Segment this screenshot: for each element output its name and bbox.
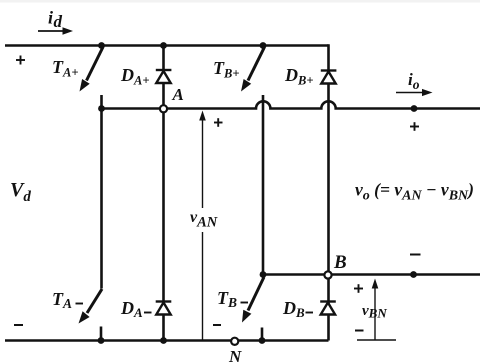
label - (v_AN bottom) <box>213 324 221 326</box>
label + (v_BN top) <box>354 284 363 293</box>
junction dot top rail / T_B+ <box>260 42 267 49</box>
current arrow i_o <box>396 89 433 96</box>
junction dot bottom rail / T_B- <box>259 337 266 344</box>
wire: top positive rail <box>5 44 329 47</box>
junction dot B line / T_B leg <box>260 271 267 278</box>
voltage arrow v_AN (points up to node A line) <box>199 111 206 341</box>
svg-text:B: B <box>333 252 347 273</box>
svg-text:DA+: DA+ <box>120 65 149 88</box>
transistor T_B- (controllable switch) <box>242 277 264 323</box>
svg-text:TA: TA <box>52 289 72 311</box>
wire: D_B leg vertical (top rail corner down to bottom rail) <box>327 44 330 340</box>
junction dot bottom rail / D_A- <box>160 337 167 344</box>
wire: T_A- lower stub <box>100 327 103 341</box>
label + (v_o positive) <box>410 122 419 131</box>
wire: T_B- lower stub <box>261 328 264 341</box>
junction dot B line output terminal <box>410 271 417 278</box>
transistor T_A+ (controllable switch) <box>80 47 104 92</box>
label + (v_AN top) <box>214 118 223 127</box>
svg-text:vo (= vAN − vBN): vo (= vAN − vBN) <box>355 180 474 204</box>
junction dot A line / left leg <box>98 105 105 112</box>
junction dot top rail / T_A+ <box>98 42 105 49</box>
label - (V_d negative) <box>14 324 23 326</box>
svg-text:Vd: Vd <box>10 179 31 205</box>
transistor T_B+ (controllable switch) <box>241 47 265 92</box>
svg-text:DA: DA <box>120 298 143 320</box>
diode D_A+ <box>156 70 172 83</box>
voltage arrow v_BN (points up to node B line) <box>357 279 396 341</box>
diode D_B+ <box>321 71 337 84</box>
svg-text:DB: DB <box>282 298 305 320</box>
transistor T_A- (controllable switch) <box>79 289 103 324</box>
current arrow i_d <box>38 27 73 35</box>
svg-text:A: A <box>172 85 184 104</box>
label - (v_o negative) <box>410 254 421 256</box>
label + (V_d positive) <box>16 56 25 65</box>
svg-text:vBN: vBN <box>362 303 387 321</box>
junction dot A line output terminal <box>411 105 418 112</box>
svg-text:DB+: DB+ <box>284 65 313 88</box>
node A terminal circle <box>160 105 167 112</box>
wire: bottom negative rail <box>5 339 329 342</box>
wire: left leg vertical (between T_A+ and T_A-) <box>100 95 103 289</box>
wire: node-B output line <box>262 273 480 276</box>
label - (v_BN bottom) <box>355 330 364 332</box>
wire: T_B leg vertical (below T_B+ to node B) <box>262 95 265 275</box>
junction dot bottom rail / T_A- <box>98 337 105 344</box>
wire: node-A output line with hops over phase-B leg <box>102 101 480 108</box>
diode D_A- <box>156 302 172 315</box>
node N terminal circle <box>231 338 238 345</box>
junction dot top rail / D_A+ <box>160 42 167 49</box>
svg-text:io: io <box>408 70 420 92</box>
svg-text:N: N <box>228 347 242 364</box>
svg-text:TB+: TB+ <box>213 58 239 81</box>
svg-text:vAN: vAN <box>190 209 218 231</box>
diode D_B- <box>320 302 336 315</box>
top scanner bar <box>0 0 480 3</box>
svg-text:TB: TB <box>217 288 237 310</box>
node B terminal circle <box>324 271 331 278</box>
svg-text:TA+: TA+ <box>52 57 78 80</box>
svg-text:id: id <box>48 8 63 32</box>
wire: diode-A leg vertical <box>162 46 165 341</box>
